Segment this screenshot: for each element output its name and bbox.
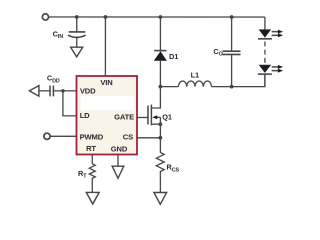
svg-text:CO: CO bbox=[213, 47, 222, 58]
wire switch node to L1 bbox=[160, 86, 178, 88]
svg-text:RT: RT bbox=[78, 169, 87, 180]
resistor R2 (RCS) bbox=[156, 153, 164, 176]
node VIN tap bbox=[104, 15, 108, 19]
svg-text:GND: GND bbox=[111, 145, 128, 154]
wire RT drop bbox=[91, 155, 93, 164]
ground (RCS) bbox=[154, 193, 167, 205]
node D1 tap bbox=[159, 15, 163, 19]
wire LED2 to bottom rail bbox=[264, 74, 266, 87]
svg-text:RT: RT bbox=[86, 144, 96, 153]
inductor L1 bbox=[179, 81, 212, 87]
node Q1 source/body junction bbox=[158, 122, 162, 126]
wire RT to ground bbox=[91, 181, 93, 192]
wire top rail bbox=[49, 16, 265, 18]
resistor R1 (RT) bbox=[89, 164, 95, 181]
LED D2 (top LED) bbox=[258, 29, 283, 38]
wire GND drop bbox=[117, 155, 119, 166]
wire bottom rail to LED string bbox=[232, 75, 265, 87]
wire CDD to VDD pin bbox=[53, 90, 76, 92]
node C_IN tap bbox=[75, 15, 79, 19]
terminal input circle bbox=[42, 14, 48, 20]
svg-text:RCS: RCS bbox=[166, 163, 179, 174]
LED D3 (bottom LED) bbox=[258, 65, 283, 74]
wire dashed LED string bbox=[264, 42, 266, 64]
node CS junction bbox=[158, 136, 162, 140]
wire top rail to LED1 bbox=[264, 17, 266, 29]
wire VDD to LD bbox=[63, 91, 77, 116]
svg-text:VIN: VIN bbox=[100, 78, 112, 87]
wire GATE bbox=[137, 116, 148, 118]
capacitor C3 (CO) bbox=[222, 17, 240, 87]
capacitor C2 (CDD) bbox=[50, 86, 53, 97]
wire VIN drop bbox=[104, 17, 106, 76]
svg-text:D1: D1 bbox=[169, 52, 178, 61]
svg-text:LD: LD bbox=[80, 111, 90, 120]
svg-text:Q1: Q1 bbox=[162, 113, 172, 122]
op-amp U1 (driver IC box) bbox=[76, 76, 137, 155]
wire PWMD bbox=[50, 135, 76, 137]
node C_O tap bbox=[230, 15, 234, 19]
wire CS to RCS bbox=[159, 138, 161, 153]
wire CS bbox=[137, 137, 160, 139]
ground (C_IN) bbox=[71, 47, 83, 57]
svg-text:CIN: CIN bbox=[53, 29, 64, 40]
svg-text:GATE: GATE bbox=[114, 112, 134, 121]
ground (GND pin) bbox=[112, 166, 124, 178]
wire RCS to ground bbox=[159, 175, 161, 192]
svg-text:PWMD: PWMD bbox=[80, 133, 104, 142]
wire D1 anode to switch node bbox=[159, 61, 161, 87]
wire L1 to C_O bottom bbox=[212, 86, 232, 88]
wire arrow to C_DD bbox=[39, 90, 50, 92]
svg-text:VDD: VDD bbox=[80, 86, 96, 95]
terminal PWMD circle bbox=[44, 133, 50, 139]
capacitor C1 (CIN) bbox=[68, 17, 86, 47]
ground (RT) bbox=[86, 192, 99, 204]
svg-text:CDD: CDD bbox=[47, 74, 60, 85]
svg-text:CS: CS bbox=[123, 132, 133, 141]
wire Q1 source to CS node bbox=[159, 124, 161, 138]
wire D1 top bbox=[159, 17, 161, 51]
terminal arrow VDD (left open triangle) bbox=[29, 86, 39, 97]
svg-text:L1: L1 bbox=[191, 71, 199, 80]
node switch node bbox=[159, 85, 163, 89]
diode D1 bbox=[154, 51, 167, 61]
transistor Q1 bbox=[148, 87, 160, 126]
node VDD/LD junction bbox=[61, 89, 65, 93]
node C_O bottom junction bbox=[230, 85, 234, 89]
